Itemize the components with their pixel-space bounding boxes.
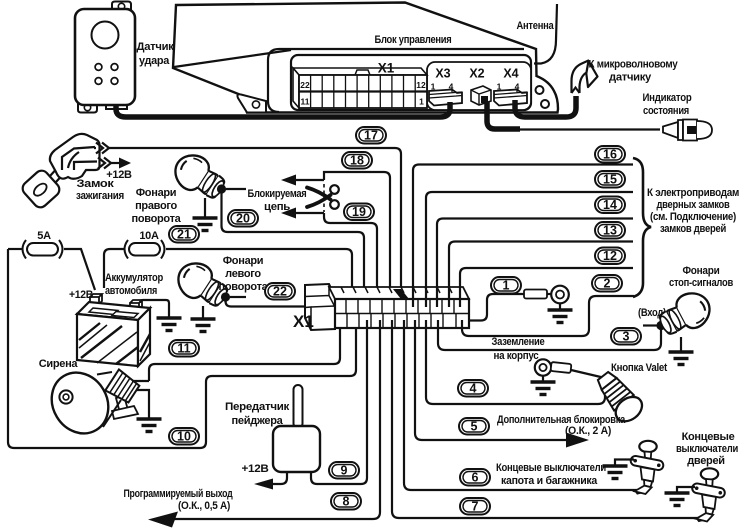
arrow to microwave sensor (ribbon arrow icon) [572,60,598,93]
svg-text:пейджера: пейджера [232,415,284,427]
ignition wire chevrons (bottom) [98,158,111,169]
unit top face seam [174,50,291,67]
wire 7: to door switches [392,320,700,518]
svg-text:Заземление: Заземление [492,336,545,348]
tag 1 [491,277,521,294]
pager transmitter (Передатчик пейджера) [294,385,303,428]
tag 17 [356,127,386,144]
svg-text:автомобиля: автомобиля [105,285,157,297]
wire 22: left bulb to X1 [226,300,341,307]
ground lug ring [551,286,569,304]
svg-text:левого: левого [225,268,261,280]
lamps of right turn (Фонари правого поворота) [168,148,230,205]
wire 11: siren to X1 pin [149,320,340,381]
wire 5: additional blocking output [415,320,567,440]
cut mark dashed line [323,184,325,212]
wire 20: right bulb to X1 pin [222,193,365,307]
status indicator LED wire [489,128,660,130]
svg-text:7: 7 [472,500,479,514]
door switch ground link [677,487,695,492]
ignition wire chevrons (top) [96,143,109,154]
stop lamp ground [680,337,682,351]
X1 grid front [299,75,427,108]
X1 bottom row cell dividers [347,314,456,329]
battery caps [89,308,118,315]
svg-text:4: 4 [470,382,477,396]
connector X2 [469,67,491,106]
wire 21: 10A fuse to X1 pin [166,249,352,307]
control unit (Блок управления) body outline [173,3,558,113]
X3 X2 X4 sub-panel [427,62,531,110]
svg-text:Кнопка Valet: Кнопка Valet [611,362,668,374]
X1 harness top face with teeth [329,287,469,299]
svg-text:X1: X1 [293,312,314,331]
X1 harness front face [335,299,469,328]
tag 11 [169,340,199,357]
wire 1: X1 to chassis ground lug [468,294,524,321]
svg-text:X3: X3 [435,67,450,81]
thick cable: X4 to microwave pigtail [515,96,576,117]
svg-text:12: 12 [416,80,426,90]
tag 22 [265,283,295,300]
tag 10 [169,428,199,445]
svg-text:зажигания: зажигания [76,190,124,202]
svg-text:+12В: +12В [242,463,269,475]
thick cable: shock sensor to X3 [116,102,450,117]
wire 18: X1 pin to blocked circuit [324,172,390,303]
svg-text:Концевые выключатели: Концевые выключатели [496,462,606,474]
X1 grid 3d left [293,68,299,108]
svg-text:Фонари: Фонари [136,187,177,199]
tag 16 [595,146,625,163]
svg-text:Аккумулятор: Аккумулятор [105,272,163,284]
sensor top mounting tab [112,2,131,12]
battery + terminal [90,294,102,304]
svg-text:17: 17 [364,129,378,143]
svg-text:замков дверей: замков дверей [660,223,726,235]
stop lamp input stub [643,324,657,326]
tag 18 [342,152,372,169]
X1 harness left 3D steps [305,284,335,330]
antenna wire [534,4,557,64]
battery (Аккумулятор автомобиля) [77,294,150,366]
svg-text:X4: X4 [503,67,518,81]
siren horn [41,362,141,444]
svg-text:22: 22 [273,285,287,299]
door switch [691,468,725,522]
wire 2: X1 to stop lamp group [462,296,634,336]
svg-text:5: 5 [471,420,478,434]
battery negative to ground wire [140,300,169,317]
svg-text:капота и багажника: капота и багажника [501,475,598,487]
siren wire + [132,380,149,382]
sensor body [75,9,135,105]
svg-text:14: 14 [603,198,617,212]
valet pigtail ring [535,359,551,375]
tag 8 [331,493,361,510]
svg-text:12: 12 [603,249,617,263]
tag 2 [592,275,622,292]
svg-text:Замок: Замок [77,178,115,190]
unit left mounting bracket [237,94,266,112]
svg-text:правого: правого [135,200,177,212]
svg-text:К электроприводам: К электроприводам [647,187,739,199]
arrow out (blocked circuit bottom) [293,212,324,214]
svg-text:К микроволновому: К микроволновому [589,59,679,71]
tag 7 [460,498,490,515]
svg-text:+12В: +12В [69,289,93,301]
tag 12 [595,248,625,265]
wire 5A fuse to battery + [64,249,95,290]
svg-text:Блок управления: Блок управления [375,34,452,46]
pager +12V arrow [271,472,287,484]
tag 4 [458,380,488,397]
valet pigtail crimp [551,362,572,373]
svg-text:Индикатор: Индикатор [643,92,693,104]
lamps of left turn (Фонари левого поворота) [171,256,233,313]
thick cable: X2 down to indicator wire [487,102,520,129]
svg-text:21: 21 [177,228,191,242]
svg-text:дверных замков: дверных замков [657,199,730,211]
svg-text:Фонари: Фонари [223,255,264,267]
svg-text:8: 8 [343,495,350,509]
connector X1 (unit side) grid [293,68,427,108]
ignition lock inner wires [62,147,97,170]
X1 grid 3d top [293,68,427,75]
tag 9 [329,462,359,479]
sensor cable stub [106,103,127,109]
svg-text:Датчик: Датчик [137,41,175,53]
X1 grid tab [355,70,370,75]
sensor small holes [95,64,102,71]
tag 6 [460,469,490,486]
svg-text:3: 3 [623,330,630,344]
svg-text:Сирена: Сирена [39,358,79,370]
unit front panel outer edge [268,49,524,112]
shock sensor (Датчик удара) [75,2,135,113]
svg-text:Блокируемая: Блокируемая [248,188,307,200]
hood switch ground link [615,460,634,466]
ground lug crimp [524,290,547,299]
left bulb ground [202,306,204,318]
brace for door lock wires [633,158,651,297]
svg-text:дверей: дверей [687,455,725,467]
svg-text:16: 16 [603,148,617,162]
svg-text:9: 9 [341,464,348,478]
svg-text:Концевые: Концевые [682,431,735,443]
stop lamp bulb [654,287,716,342]
svg-text:15: 15 [603,173,617,187]
svg-text:цепь: цепь [264,201,291,213]
wire 14 [437,219,633,308]
svg-text:Фонари: Фонари [683,265,720,277]
battery front face [77,314,138,366]
X1 harness key stripe [393,289,409,299]
svg-text:20: 20 [236,212,250,226]
battery hatch lines [79,323,150,364]
junction node at left bulb [221,292,230,301]
svg-text:11: 11 [177,342,190,356]
junction node at right bulb [217,184,226,193]
svg-text:на корпус: на корпус [494,350,539,362]
svg-text:13: 13 [603,224,617,238]
svg-text:18: 18 [350,154,364,168]
wire 6: to hood/trunk switches [404,320,637,490]
svg-text:X1: X1 [378,61,395,76]
siren driver [105,369,140,404]
tag 19 [344,204,374,221]
wire 15 [426,192,633,307]
wire 17: ignition to X1 pin [94,148,401,303]
svg-text:удара: удара [139,55,170,67]
connector X3 [429,67,462,106]
svg-text:Передатчик: Передатчик [225,401,290,413]
svg-text:6: 6 [472,471,479,485]
svg-text:поворота: поворота [132,213,182,225]
svg-text:датчику: датчику [609,72,652,84]
wire to +12V with arrow [111,162,121,164]
supply loop wire (tag 10 circuit) [8,249,356,448]
connector X4 [494,67,527,106]
wire 9: pager to X1 [311,320,367,484]
tag 21 [169,226,199,243]
stub from left bulb node [230,296,246,298]
tag 13 [595,222,625,239]
svg-text:11: 11 [301,97,310,107]
svg-text:5А: 5А [37,230,51,242]
X1 top row cell dividers [346,299,454,314]
ground lug ground symbol [559,303,561,309]
valet pigtail wire [571,370,605,378]
svg-text:выключатели: выключатели [676,443,738,455]
ignition lock shaft [50,165,66,182]
siren wire - to ground [136,390,149,418]
svg-text:(О.К., 0,5 А): (О.К., 0,5 А) [178,500,231,512]
status indicator LED [663,120,712,141]
wire 3: X1 to stop lamp input [438,320,661,350]
unit front panel recess [291,55,531,110]
scissors [307,185,339,209]
wire 4: X1 to Valet button [426,320,605,404]
arrow out (blocked circuit top) [293,179,324,181]
svg-text:стоп-сигналов: стоп-сигналов [669,277,733,289]
ignition lock key head [20,168,62,210]
svg-text:2: 2 [604,277,611,291]
svg-text:Программируемый выход: Программируемый выход [124,488,233,500]
wire 13 [449,242,633,308]
svg-text:(О.К., 2 А): (О.К., 2 А) [565,425,612,437]
wire 16: X1 pin to door-lock group [413,165,633,308]
siren hub [59,390,72,403]
tag 5 [459,418,489,435]
sensor big circle [92,22,119,49]
svg-text:поворота: поворота [219,281,269,293]
svg-text:состояния: состояния [643,105,689,117]
tag 20 [228,210,258,227]
siren ground [137,419,162,432]
battery right face [138,308,150,366]
sensor bottom mounting tab [78,103,97,113]
siren bell [41,362,120,444]
svg-text:Антенна: Антенна [517,20,555,32]
right bulb ground [204,198,206,217]
Valet button [592,367,647,426]
wire 8: programmable output [160,320,380,519]
stub to label [226,188,246,190]
siren bracket [116,396,128,413]
battery top face [77,302,150,320]
svg-text:1: 1 [419,97,424,107]
battery - terminal [130,300,142,310]
svg-text:10А: 10А [139,230,159,242]
harness connector X1 (main) [305,284,469,330]
tag 3 [611,328,641,345]
svg-text:X2: X2 [469,67,484,81]
svg-text:(см. Подключение): (см. Подключение) [650,211,737,223]
wire 12 [460,268,633,307]
svg-text:19: 19 [352,205,366,219]
battery ground [157,318,182,331]
valet ring ground [542,376,544,381]
svg-text:22: 22 [300,80,310,90]
junction node stop lamp [656,321,665,330]
hood/trunk switch [630,441,664,495]
svg-text:10: 10 [177,430,191,444]
unit right bracket holes [536,86,544,94]
ignition lock body [50,134,100,179]
svg-text:1: 1 [503,279,510,293]
tag 14 [595,197,625,214]
wire 19: blocked circuit to X1 pin [324,213,377,303]
tag 15 [595,171,625,188]
